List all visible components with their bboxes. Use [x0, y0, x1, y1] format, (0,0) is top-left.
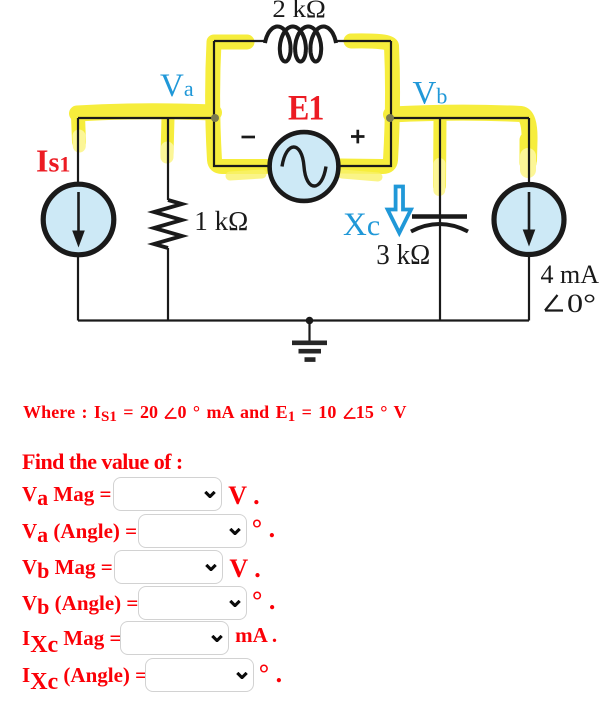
svg-text:E1: E1 — [288, 89, 323, 128]
svg-text:Xc: Xc — [343, 207, 380, 243]
svg-text:2 kΩ: 2 kΩ — [272, 0, 326, 23]
svg-text:Is1: Is1 — [36, 143, 70, 179]
svg-text:4 mA: 4 mA — [541, 260, 600, 289]
svg-text:0°: 0° — [567, 289, 596, 318]
svg-text:Va: Va — [160, 68, 194, 104]
svg-text:3 kΩ: 3 kΩ — [376, 240, 430, 271]
svg-text:Vb: Vb — [413, 76, 448, 112]
svg-text:1 kΩ: 1 kΩ — [194, 206, 248, 236]
